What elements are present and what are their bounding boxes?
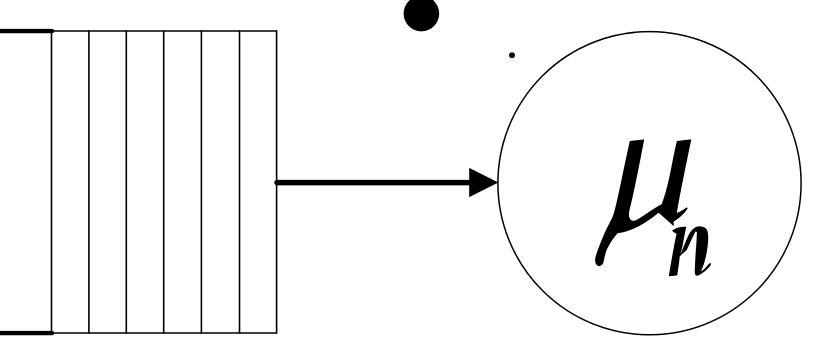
ellipsis big dot (404, 0, 440, 31)
tap line 7 (box right edge) (276, 30, 278, 333)
label subscript n (669, 226, 711, 276)
label mu (595, 139, 691, 266)
delay-line box bottom edge (51, 332, 277, 334)
tap line 4 (163, 30, 165, 333)
arrow head (469, 168, 498, 197)
tap line 3 (125, 30, 127, 333)
tap line 2 (88, 30, 90, 333)
node circle mu_n (498, 32, 801, 335)
arrow shaft (277, 180, 471, 186)
thick input bar top (0, 29, 52, 33)
tap line 1 (51, 30, 53, 333)
tap line 6 (239, 30, 241, 333)
delay-line box top edge (51, 30, 277, 32)
thick input bar bottom (0, 331, 52, 335)
ellipsis small dot (509, 52, 515, 58)
tap line 5 (200, 30, 202, 333)
